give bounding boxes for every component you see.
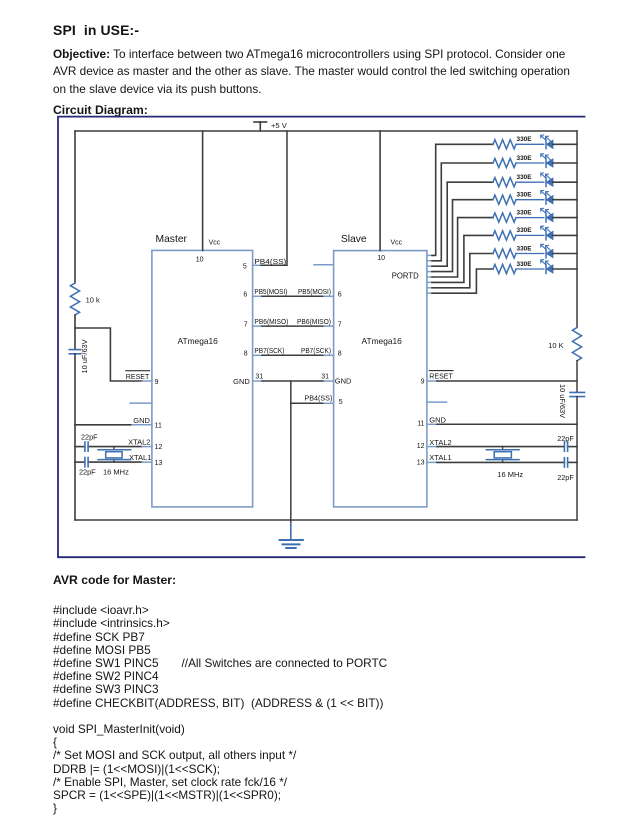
wire resistor to LED row 1 xyxy=(516,143,544,145)
svg-text:8: 8 xyxy=(244,351,248,358)
wire resistor to LED row 7 xyxy=(516,253,544,255)
svg-text:330E: 330E xyxy=(517,192,532,199)
svg-text:PB6(MISO): PB6(MISO) xyxy=(297,317,331,326)
resistor 330E row 8 xyxy=(493,261,532,274)
capacitor 22pF master XTAL2 xyxy=(81,432,98,451)
svg-text:XTAL2: XTAL2 xyxy=(429,438,451,447)
wire PORTD.6 to LED row 7 xyxy=(427,254,493,288)
wire 10k to capacitor xyxy=(74,315,76,349)
svg-text:10 K: 10 K xyxy=(548,341,563,350)
LED row 1 xyxy=(541,135,553,149)
svg-text:RESET: RESET xyxy=(429,372,453,381)
wire LED row 2 to +5V rail xyxy=(553,162,577,164)
svg-text:16 MHz: 16 MHz xyxy=(497,470,523,479)
svg-text:PB5(MOSI): PB5(MOSI) xyxy=(254,287,287,296)
resistor 330E row 1 xyxy=(493,136,532,149)
wire slave Vcc pin 10 to +5V xyxy=(380,131,403,251)
wire master reset node to pin 9 xyxy=(75,328,152,381)
svg-text:10: 10 xyxy=(377,255,385,262)
wire slave cap to ground rail xyxy=(576,397,578,520)
svg-text:5: 5 xyxy=(339,399,343,406)
svg-text:GND: GND xyxy=(429,415,446,424)
wire +5V top rail xyxy=(75,130,577,132)
wire master SS pin 5 to +5V xyxy=(253,131,287,266)
capacitor 22pF slave XTAL2 xyxy=(557,434,574,451)
wire PORTD.2 to LED row 3 xyxy=(427,182,493,266)
wire LED row 1 to +5V rail xyxy=(553,143,577,145)
svg-text:PB6(MISO): PB6(MISO) xyxy=(254,317,288,326)
svg-text:330E: 330E xyxy=(517,155,532,162)
wire resistor to LED row 3 xyxy=(516,181,544,183)
LED row 4 xyxy=(541,190,553,204)
svg-text:GND: GND xyxy=(335,376,352,385)
LED row 3 xyxy=(541,173,553,187)
svg-text:PB5(MOSI): PB5(MOSI) xyxy=(298,287,331,296)
wire LED row 3 to +5V rail xyxy=(553,181,577,183)
svg-text:XTAL2: XTAL2 xyxy=(128,437,150,446)
wire master XTAL2 pin 12 xyxy=(75,437,152,446)
wire bottom ground rail xyxy=(75,519,577,521)
wire PORTD.5 to LED row 6 xyxy=(427,235,493,282)
capacitor 22pF slave XTAL1 xyxy=(557,458,574,482)
resistor 10k master reset pull-up xyxy=(70,283,100,315)
svg-text:6: 6 xyxy=(243,292,247,299)
crystal 16MHz slave xyxy=(486,447,523,479)
svg-text:PB7(SCK): PB7(SCK) xyxy=(254,346,284,355)
MCU U2 Slave ATmega16 xyxy=(314,234,447,507)
svg-text:22pF: 22pF xyxy=(557,473,574,482)
capacitor 22pF master XTAL1 xyxy=(79,458,96,477)
wire LED row 4 to +5V rail xyxy=(553,199,577,201)
svg-text:31: 31 xyxy=(321,374,329,381)
resistor 330E row 7 xyxy=(493,245,532,258)
wire master GND pin 11 xyxy=(75,416,152,425)
wire resistor to LED row 5 xyxy=(516,217,544,219)
wire master Vcc pin 10 to +5V xyxy=(203,131,221,250)
svg-text:11: 11 xyxy=(417,420,424,427)
wire GND bus pin 31 to pin 31 xyxy=(253,374,334,381)
svg-text:16 MHz: 16 MHz xyxy=(103,468,129,477)
svg-text:22pF: 22pF xyxy=(557,434,574,443)
svg-text:Vcc: Vcc xyxy=(209,240,221,247)
svg-text:10 k: 10 k xyxy=(86,295,100,304)
ground symbol xyxy=(280,523,303,548)
wire resistor to LED row 8 xyxy=(516,268,544,270)
svg-text:11: 11 xyxy=(155,422,162,429)
resistor 330E row 5 xyxy=(493,209,532,222)
wire slave RESET pin 9 to pull-up node xyxy=(427,371,577,381)
crystal 16MHz master xyxy=(98,447,131,477)
svg-text:XTAL1: XTAL1 xyxy=(429,453,451,462)
svg-text:ATmega16: ATmega16 xyxy=(362,336,403,346)
wire ground drop to rail xyxy=(290,381,292,524)
svg-text:330E: 330E xyxy=(517,261,532,268)
capacitor 10uF/63V master reset xyxy=(69,339,89,373)
resistor 330E row 2 xyxy=(493,155,532,168)
svg-text:22pF: 22pF xyxy=(81,432,98,441)
wire resistor to LED row 2 xyxy=(516,162,544,164)
svg-text:9: 9 xyxy=(155,379,159,386)
svg-text:12: 12 xyxy=(417,443,425,450)
wire slave GND pin 11 xyxy=(427,415,577,424)
svg-text:330E: 330E xyxy=(517,227,532,234)
svg-text:PB4(SS): PB4(SS) xyxy=(304,394,332,403)
svg-text:Slave: Slave xyxy=(341,234,367,245)
wire LED row 7 to +5V rail xyxy=(553,253,577,255)
svg-text:+5 V: +5 V xyxy=(271,121,288,130)
resistor 330E row 3 xyxy=(493,174,532,187)
svg-text:7: 7 xyxy=(244,322,248,329)
wire LED row 5 to +5V rail xyxy=(553,217,577,219)
MCU U1 Master ATmega16 xyxy=(130,234,252,507)
resistor 330E row 4 xyxy=(493,192,532,205)
svg-text:Vcc: Vcc xyxy=(391,240,403,247)
svg-text:9: 9 xyxy=(421,379,425,386)
LED row 8 xyxy=(541,260,553,274)
LED row 7 xyxy=(541,244,553,258)
LED row 2 xyxy=(541,154,553,168)
svg-text:PORTD: PORTD xyxy=(392,270,419,280)
svg-text:7: 7 xyxy=(338,322,342,329)
wire left +5V drop xyxy=(74,131,76,283)
svg-text:10 uF/63V: 10 uF/63V xyxy=(80,339,89,373)
svg-text:8: 8 xyxy=(338,351,342,358)
wire PORTD.3 to LED row 4 xyxy=(427,200,493,272)
svg-text:10 uF/63V: 10 uF/63V xyxy=(558,384,567,418)
svg-text:GND: GND xyxy=(133,416,150,425)
svg-text:10: 10 xyxy=(196,257,204,264)
resistor 330E row 6 xyxy=(493,227,532,240)
wire resistor to LED row 6 xyxy=(516,234,544,236)
svg-text:PB7(SCK): PB7(SCK) xyxy=(301,346,331,355)
wire right +5V rail drop xyxy=(576,131,578,328)
wire LED row 8 to +5V rail xyxy=(553,268,577,270)
wire resistor to LED row 4 xyxy=(516,199,544,201)
svg-text:Master: Master xyxy=(156,234,188,245)
svg-text:13: 13 xyxy=(417,459,425,466)
svg-text:12: 12 xyxy=(155,444,163,451)
wire PORTD.0 to LED row 1 xyxy=(427,144,493,255)
wire SCK master to slave xyxy=(253,346,334,355)
wire master cap to ground rail xyxy=(74,354,76,520)
LED row 5 xyxy=(541,208,553,222)
svg-text:330E: 330E xyxy=(517,174,532,181)
wire MISO master to slave xyxy=(253,317,334,326)
wire PORTD.4 to LED row 5 xyxy=(427,218,493,277)
wire slave SS pin 5 to ground xyxy=(291,394,334,404)
svg-text:22pF: 22pF xyxy=(79,468,96,477)
power +5V supply xyxy=(254,121,288,131)
wire master XTAL1 pin 13 xyxy=(75,453,152,462)
svg-text:6: 6 xyxy=(338,292,342,299)
wire 10K to slave cap xyxy=(576,361,578,392)
svg-text:GND: GND xyxy=(233,377,250,386)
svg-text:ATmega16: ATmega16 xyxy=(178,336,219,346)
svg-text:13: 13 xyxy=(155,460,163,467)
wire slave XTAL2 pin 12 xyxy=(427,438,577,447)
wire slave XTAL1 pin 13 xyxy=(427,453,577,462)
wire MOSI master to slave xyxy=(253,287,334,296)
resistor 10K slave reset pull-up xyxy=(548,328,581,361)
svg-text:5: 5 xyxy=(243,264,247,271)
svg-text:RESET: RESET xyxy=(126,372,150,381)
wire PORTD.1 to LED row 2 xyxy=(427,163,493,261)
wire PORTD.7 to LED row 8 xyxy=(427,269,493,293)
svg-text:XTAL1: XTAL1 xyxy=(129,453,151,462)
svg-text:330E: 330E xyxy=(517,136,532,143)
capacitor 10uF/63V slave reset xyxy=(558,384,584,418)
svg-text:330E: 330E xyxy=(517,245,532,252)
svg-text:330E: 330E xyxy=(517,209,532,216)
LED row 6 xyxy=(541,226,553,240)
svg-text:31: 31 xyxy=(255,374,263,381)
wire LED row 6 to +5V rail xyxy=(553,234,577,236)
svg-text:PB4(SS): PB4(SS) xyxy=(254,257,286,266)
